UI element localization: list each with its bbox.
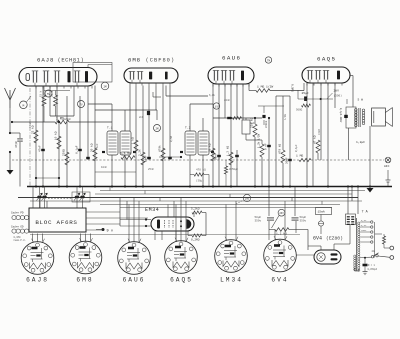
svg-text:AFC: AFC: [384, 165, 390, 168]
wire plate to OT: [350, 75, 353, 77]
svg-text:EM34: EM34: [145, 207, 159, 213]
resistor R17 1M on AVC: [299, 158, 311, 161]
svg-text:10 kΩ: 10 kΩ: [54, 131, 58, 140]
capacitor C12: [288, 159, 292, 161]
wire T1 leads: [111, 155, 113, 187]
resistor R2 22k: [34, 130, 38, 143]
capacitor C9: [217, 155, 221, 157]
svg-text:50nF: 50nF: [215, 153, 218, 160]
svg-text:Φ = 1: Φ = 1: [368, 264, 376, 267]
ground below bus right: [367, 188, 374, 193]
circled test point 260: [243, 194, 250, 201]
tube V4 6AQ5 envelope: [302, 67, 350, 83]
output transformer primary winding: [355, 109, 358, 112]
wire pin9 down: [94, 110, 96, 187]
svg-text:20nF: 20nF: [286, 157, 289, 164]
wire x269 down: [268, 118, 270, 187]
svg-text:47nF: 47nF: [29, 121, 32, 128]
EM34 left stubs: [146, 219, 151, 221]
resistor R9 5.6M: [121, 156, 135, 160]
svg-text:6AQ5: 6AQ5: [170, 277, 193, 284]
svg-text:7 A: 7 A: [362, 211, 369, 215]
svg-text:470k: 470k: [158, 145, 162, 152]
capacitor C6: [147, 157, 151, 159]
capacitor C15 50uF: [294, 187, 296, 217]
dashed leader 260: [236, 200, 244, 204]
svg-text:5nF: 5nF: [250, 122, 255, 125]
circled 26V: [278, 209, 285, 216]
svg-text:1 kΩ: 1 kΩ: [131, 137, 135, 144]
wire V3 plate to R10: [248, 84, 250, 91]
switch: [371, 256, 373, 258]
svg-text:Cadre PO: Cadre PO: [11, 211, 24, 215]
resistor R8: [161, 148, 165, 161]
wire cathode horizontal: [298, 98, 333, 100]
terminal circle M1: [20, 101, 28, 109]
wire V1 plate to IFT1: [87, 86, 89, 105]
transformer secondary winding: [358, 222, 360, 224]
svg-text:28V: 28V: [334, 90, 340, 93]
svg-text:6,8k: 6,8k: [209, 94, 216, 97]
transformer taps: [360, 221, 370, 223]
mains cap to ground: [364, 257, 366, 259]
bus junction dots: [35, 185, 37, 187]
svg-text:6V4: 6V4: [313, 236, 322, 242]
resistor R3 10k: [57, 136, 61, 149]
capacitor C11: [267, 145, 271, 147]
voltage selector block: [346, 214, 356, 225]
svg-text:1,2 kΩ: 1,2 kΩ: [226, 146, 230, 156]
svg-text:33 kΩ: 33 kΩ: [208, 143, 212, 152]
wire V4 pins: [320, 83, 322, 160]
EM34 pins down: [154, 231, 156, 240]
trimmer below AFC: [387, 170, 389, 180]
output transformer primary loop: [346, 107, 356, 128]
svg-text:5,6 MΩ: 5,6 MΩ: [120, 152, 131, 155]
IF transformer T2 coil b: [198, 131, 209, 155]
wire V4 pin down: [312, 83, 314, 187]
circled test point 2M: [101, 82, 109, 90]
EM34 grid dots: [180, 220, 182, 222]
fuse circle: [318, 221, 323, 226]
6V4 filament circle: [317, 253, 325, 261]
svg-text:47nF: 47nF: [39, 145, 42, 152]
capacitor C7: [168, 157, 172, 159]
svg-text:9 v: 9 v: [107, 230, 114, 234]
svg-text:10nF: 10nF: [101, 166, 108, 169]
svg-text:M: M: [22, 104, 24, 107]
svg-text:T.1: T.1: [107, 127, 113, 130]
wire x290 down: [289, 96, 291, 187]
transformer core: [356, 218, 358, 271]
wire T2 leads: [202, 155, 204, 187]
tube V1 cathode circle: [26, 74, 29, 81]
resistor R21 1.2k: [275, 228, 289, 232]
svg-text:6AQ5: 6AQ5: [317, 56, 336, 63]
resistor R26: [224, 166, 227, 174]
gang box: [72, 192, 90, 202]
mains resistor: [383, 236, 386, 244]
wires BLOC right: [86, 211, 120, 213]
svg-text:TM: TM: [267, 59, 271, 62]
svg-text:220kΩ: 220kΩ: [265, 120, 268, 128]
resistor R11: [253, 124, 257, 137]
circled test point 1V: [213, 103, 219, 109]
capacitor C14 50uF: [267, 217, 274, 219]
svg-text:1 MΩ: 1 MΩ: [296, 155, 303, 158]
AFC terminal: [385, 157, 391, 163]
svg-text:0,5M: 0,5M: [170, 135, 173, 142]
circled test point TM: [265, 57, 271, 63]
socket EM34: [215, 240, 248, 273]
svg-text:0,2MΩ: 0,2MΩ: [191, 239, 200, 242]
capacitor C8: [227, 117, 231, 119]
cap drops to sockets: [268, 230, 270, 241]
circled test point 50V: [45, 90, 52, 97]
tuning link dash-dot: [29, 88, 31, 187]
wire osc top: [44, 90, 70, 92]
wire V1 pin5 down: [58, 122, 60, 187]
svg-text:470 kΩ: 470 kΩ: [196, 168, 206, 172]
svg-text:70 k: 70 k: [50, 90, 54, 97]
output transformer core: [358, 108, 360, 127]
capacitor C2: [41, 149, 45, 151]
ground left: [9, 152, 11, 170]
capacitor C10: [235, 155, 239, 157]
6V4 plates: [331, 253, 338, 255]
wire x269 to cap: [268, 187, 270, 217]
trimmer box: [242, 120, 250, 134]
svg-text:6AJ8: 6AJ8: [26, 277, 49, 284]
svg-text:1/2W: 1/2W: [284, 114, 287, 120]
tube V2 6M8 envelope: [124, 68, 178, 83]
resistor R19 520k: [192, 211, 202, 214]
svg-text:22nF: 22nF: [224, 99, 231, 102]
svg-text:LM34: LM34: [220, 277, 243, 284]
svg-text:120pF: 120pF: [64, 118, 72, 121]
svg-text:Cadre GO: Cadre GO: [11, 225, 24, 229]
circled test point 2M mid: [154, 125, 161, 132]
svg-text:Comm.P.U.: Comm.P.U.: [14, 239, 26, 242]
harness line 2: [100, 190, 365, 192]
svg-text:10nF: 10nF: [145, 155, 148, 162]
main chassis bus: [27, 186, 392, 188]
wire R1 right: [69, 121, 112, 123]
variable capacitor CV2: [75, 196, 80, 199]
wire V1 pin2 down: [35, 86, 37, 187]
svg-text:6AJ8: 6AJ8: [37, 57, 54, 64]
harness jogs: [109, 187, 111, 191]
harness line 6: [100, 204, 340, 206]
wire x276 down: [275, 96, 277, 187]
resistor R22 on y118: [233, 117, 242, 120]
BLOC AF6RS box: [29, 208, 86, 232]
resistor R18 47k: [316, 140, 320, 153]
svg-text:1 MΩ 1/2W: 1 MΩ 1/2W: [257, 85, 273, 89]
svg-text:2M: 2M: [155, 127, 159, 130]
svg-text:0,5MΩ: 0,5MΩ: [291, 84, 294, 92]
IF transformer T1 coil a: [107, 131, 118, 155]
svg-text:350v: 350v: [255, 220, 262, 223]
svg-text:1nF: 1nF: [96, 143, 99, 148]
svg-text:50µF: 50µF: [232, 168, 239, 171]
svg-text:47pF: 47pF: [15, 141, 18, 148]
resistor R15 470k: [281, 150, 285, 163]
tube V3 6AU6 envelope: [208, 67, 254, 84]
mains plug: [390, 246, 394, 250]
svg-text:5 W: 5 W: [358, 99, 364, 102]
wire bus to transformer: [347, 187, 349, 215]
heater chain wire: [30, 234, 300, 236]
capacitor T1 left: [102, 151, 105, 153]
svg-text:6,3v: 6,3v: [361, 219, 367, 222]
svg-text:220Ω: 220Ω: [63, 149, 66, 156]
transformer filament winding: [354, 255, 356, 257]
IF transformer T1 coil b: [120, 131, 131, 155]
capacitor T2 left: [180, 151, 183, 153]
capacitor C17: [262, 115, 265, 118]
svg-text:6V4: 6V4: [271, 277, 288, 284]
harness line 5: [30, 200, 362, 202]
resistor R12 33k: [211, 148, 215, 161]
resistor R24 70k: [54, 95, 58, 106]
harness line 4: [18, 197, 358, 199]
resistor R1 1M: [55, 120, 69, 124]
wire V1 pin3 down: [42, 86, 44, 187]
svg-text:15mA: 15mA: [318, 211, 325, 214]
svg-text:0,1µF: 0,1µF: [295, 144, 298, 152]
AVC dashed line: [12, 159, 299, 161]
wire V2 pins down: [129, 86, 131, 132]
oscillator shield box: [73, 63, 112, 83]
svg-text:1,2µF: 1,2µF: [356, 141, 365, 144]
wire antenna to C1: [10, 132, 20, 134]
svg-text:6M8: 6M8: [128, 57, 141, 64]
6V4 top wires: [333, 244, 335, 250]
9V tap: [102, 228, 105, 231]
wire osc section: [49, 86, 51, 117]
resistor R13 1.2k: [229, 152, 233, 165]
tube EM34 envelope: [151, 217, 194, 231]
wire OT secondary down: [348, 128, 350, 160]
capacitor C4: [86, 157, 90, 159]
resistor R5 20k: [93, 148, 97, 161]
svg-text:0,050µF: 0,050µF: [368, 268, 378, 271]
wire R10 to V4 grid: [270, 90, 304, 92]
svg-text:2,2k: 2,2k: [138, 149, 142, 156]
svg-text:2A: 2A: [372, 250, 376, 253]
harness line 3: [95, 193, 352, 195]
wire y106: [258, 105, 284, 107]
svg-text:(EZ80): (EZ80): [326, 236, 343, 242]
resistor R10 1M 1/2W: [256, 89, 270, 93]
resistor R14: [260, 144, 264, 157]
svg-text:560Ω: 560Ω: [296, 109, 303, 112]
svg-text:26V: 26V: [279, 212, 284, 215]
wires BLOC top: [32, 187, 34, 209]
tube 6V4 envelope: [314, 250, 341, 264]
EM34 top drops: [167, 205, 169, 218]
wire R25 loop: [204, 174, 209, 176]
svg-text:5V: 5V: [47, 93, 51, 96]
svg-text:2nF: 2nF: [139, 116, 144, 119]
svg-text:25µF: 25µF: [302, 92, 309, 95]
capacitor C13 25uF: [304, 96, 307, 101]
IF transformer T2 coil a: [185, 131, 196, 155]
wire y118 link: [213, 117, 262, 119]
svg-text:1V: 1V: [215, 105, 219, 108]
circled test point 70V: [78, 101, 85, 108]
svg-text:6AU6: 6AU6: [222, 55, 241, 62]
svg-text:47kΩ: 47kΩ: [318, 128, 321, 135]
svg-text:(30µ): (30µ): [196, 179, 204, 183]
socket 6M8: [69, 241, 102, 274]
wire pin8 down: [87, 104, 89, 160]
svg-text:1,2k 1/2W: 1,2k 1/2W: [257, 134, 261, 148]
variable capacitor CV1: [37, 196, 42, 199]
svg-text:9 nF: 9 nF: [265, 143, 268, 150]
wire pin7 down: [79, 96, 81, 187]
socket 6AJ8: [21, 242, 54, 275]
resistor R4 220: [65, 152, 69, 165]
wire V2 bend: [153, 96, 161, 98]
socket 6V4: [264, 239, 297, 272]
wire antenna down: [9, 108, 11, 133]
mains right column: [374, 222, 376, 258]
svg-text:(CBF80): (CBF80): [146, 58, 176, 64]
resistor R25 470k: [194, 173, 204, 176]
resistor R16 560: [302, 104, 311, 107]
svg-text:350v: 350v: [300, 220, 307, 223]
svg-text:6M8: 6M8: [76, 277, 93, 284]
svg-text:20 kΩ: 20 kΩ: [90, 143, 94, 152]
svg-text:47 kΩ: 47 kΩ: [313, 135, 317, 144]
coupling capacitor blob V2: [147, 111, 150, 115]
wire cathode right: [346, 99, 348, 104]
socket drop wires: [32, 234, 34, 242]
wire grid top: [12, 121, 55, 123]
speaker: [372, 108, 386, 126]
resistor R7: [141, 152, 145, 165]
wire y140 link: [246, 139, 262, 141]
transformer bottom wires: [354, 268, 356, 272]
svg-text:1,2 kΩ: 1,2 kΩ: [276, 232, 287, 236]
tube V1 top cap wire: [87, 65, 89, 68]
wire V4 cathode: [306, 83, 308, 97]
wire caps to rectifier: [296, 229, 308, 231]
EM34 eye target half-disc: [187, 219, 192, 229]
wire R9 link: [159, 156, 181, 158]
svg-text:0,1µF: 0,1µF: [76, 145, 79, 154]
wire V1 pin4 down: [56, 86, 58, 123]
capacitor T2 right: [211, 151, 214, 153]
svg-text:15 k: 15 k: [39, 90, 43, 97]
svg-text:6,3v: 6,3v: [361, 224, 367, 227]
resistor R20: [192, 234, 202, 237]
resistor R6 1k: [134, 140, 138, 153]
svg-text:T.2: T.2: [185, 127, 191, 130]
leader M1: [27, 96, 32, 102]
gang link dashed: [48, 198, 72, 200]
wire to 6V4 socket: [297, 254, 315, 256]
capacitor C1 47pF: [17, 138, 23, 140]
26V leader line: [272, 216, 280, 229]
svg-text:6AU6: 6AU6: [123, 277, 146, 284]
wire IFT2 to V3 grid: [189, 104, 191, 131]
svg-text:250v: 250v: [361, 229, 367, 232]
capacitor C3: [78, 149, 82, 151]
svg-text:25nF: 25nF: [148, 168, 155, 171]
wire V1 to V2 coupling: [94, 86, 96, 111]
capacitor C16 across primary: [344, 115, 348, 118]
leader 28V: [327, 93, 333, 99]
socket 6AQ5: [165, 241, 198, 274]
antenna: [9, 100, 11, 108]
capacitor T1 right: [133, 151, 136, 153]
fuse box 15mA: [316, 208, 332, 215]
svg-text:0,1µF-400V: 0,1µF-400V: [339, 108, 342, 123]
svg-text:BLOC AF6RS: BLOC AF6RS: [35, 219, 77, 226]
svg-text:2M: 2M: [103, 86, 107, 89]
svg-text:470 kΩ: 470 kΩ: [278, 144, 282, 154]
socket 6AU6: [118, 242, 151, 275]
wire pin6 down: [66, 96, 68, 187]
resistor R23 15k: [42, 95, 46, 106]
wire V3 pins down: [218, 84, 220, 160]
harness line 7: [120, 207, 332, 209]
wire V2 to V3: [166, 95, 208, 97]
tube V1 6AJ8 envelope: [19, 68, 97, 87]
svg-text:5,2kΩ: 5,2kΩ: [191, 207, 200, 211]
wire y172 link: [95, 171, 136, 173]
link wire y178: [36, 177, 59, 179]
output transformer secondary winding: [362, 109, 365, 112]
